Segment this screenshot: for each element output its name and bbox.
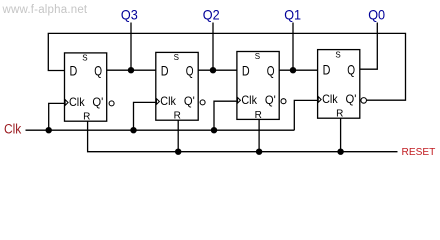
junction dot reset bus at R2 [175, 149, 181, 155]
wire R2 down [177, 120, 179, 152]
svg-text:S: S [335, 50, 340, 59]
U2 clock edge triangle [156, 99, 159, 105]
U4 Q' inversion bubble [361, 98, 367, 104]
wire clk branch to U3 [214, 101, 237, 130]
U3 clock edge triangle [238, 97, 241, 103]
wire feedback Q'4 to D1 (top loop) [48, 33, 405, 100]
svg-text:Q': Q' [346, 92, 357, 106]
svg-text:R: R [174, 111, 181, 122]
wire Q1 to D2 [107, 69, 156, 71]
svg-text:Q: Q [267, 63, 275, 79]
svg-text:Q: Q [186, 63, 194, 79]
junction dot Q3 node [128, 67, 134, 73]
svg-text:D: D [242, 63, 250, 79]
U3 Q' inversion bubble [281, 99, 286, 104]
svg-text:Q': Q' [184, 94, 195, 108]
wire Q2 tap [212, 23, 214, 71]
U4 clock edge triangle [318, 97, 321, 103]
junction dot Q1 node [290, 67, 296, 73]
svg-text:R: R [336, 109, 343, 120]
svg-text:Clk: Clk [160, 94, 176, 108]
svg-text:Q': Q' [92, 95, 103, 109]
svg-text:R: R [83, 112, 90, 123]
junction dot clk bus at U3 [211, 127, 217, 133]
svg-text:R: R [255, 110, 262, 121]
wire clk branch to U1 [49, 103, 65, 130]
U1 Q' inversion bubble [109, 101, 114, 106]
svg-text:Clk: Clk [4, 122, 22, 137]
wire clk branch to U2 [134, 102, 156, 130]
svg-text:Q: Q [347, 62, 355, 78]
U1 clock edge triangle [65, 100, 68, 106]
svg-text:Clk: Clk [69, 95, 85, 109]
svg-text:Clk: Clk [322, 92, 338, 106]
junction dot Q2 node [210, 67, 216, 73]
wire reset bus from R1 [88, 121, 398, 152]
flip-flop U2 (D flip-flop, Q2 stage) [156, 52, 205, 121]
svg-text:Q: Q [94, 63, 102, 79]
junction dot reset bus at R4 [337, 149, 343, 155]
svg-text:S: S [255, 52, 260, 61]
svg-text:D: D [161, 63, 169, 79]
svg-text:Q0: Q0 [368, 8, 385, 23]
wire Q3 tap [130, 23, 132, 71]
wire Q1 tap [292, 23, 294, 71]
svg-text:D: D [323, 62, 331, 78]
wire Q3 to D4 [279, 69, 317, 71]
svg-text:RESET: RESET [402, 147, 436, 158]
wire R4 down [340, 118, 342, 152]
svg-text:Q': Q' [265, 93, 276, 107]
wire Q4 up to Q0 [360, 23, 378, 70]
svg-text:S: S [82, 54, 87, 63]
wire clk bus [26, 129, 295, 131]
wire clk branch to U4 [294, 100, 317, 130]
flip-flop U1 (D flip-flop, Q3 stage) [65, 53, 115, 123]
junction dot reset bus at R3 [256, 149, 262, 155]
svg-text:Q2: Q2 [203, 8, 220, 23]
junction dot clk bus at U1 [46, 127, 52, 133]
svg-text:Clk: Clk [241, 93, 257, 107]
svg-text:S: S [174, 53, 179, 62]
flip-flop U4 (D flip-flop, Q0 stage) [318, 50, 367, 120]
junction dot clk bus at U2 [130, 127, 136, 133]
wire Q2 to D3 [198, 69, 237, 71]
svg-text:Q1: Q1 [284, 8, 301, 23]
svg-text:Q3: Q3 [121, 8, 138, 23]
flip-flop U3 (D flip-flop, Q1 stage) [237, 52, 286, 121]
svg-text:D: D [70, 63, 78, 79]
wire R3 down [258, 119, 260, 151]
svg-text:www.f-alpha.net: www.f-alpha.net [2, 4, 88, 16]
U2 Q' inversion bubble [200, 100, 205, 105]
